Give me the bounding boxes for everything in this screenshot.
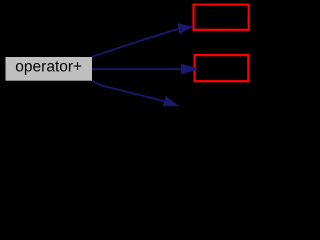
edge 3: operator+ -> hidden node [92,81,177,106]
node truncated box 1 [194,5,249,30]
edge 2: operator+ -> box2 [92,64,197,74]
svg-text:operator+: operator+ [15,59,82,76]
edge 1: operator+ -> box1 [92,24,192,57]
node operator+ [6,57,93,81]
node truncated box 2 [195,55,249,81]
